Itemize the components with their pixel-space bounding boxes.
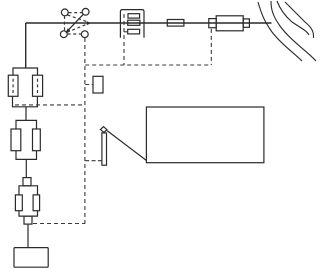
harness cable bundle — [258, 1, 316, 61]
dashed stub to terminal 3 — [124, 31, 128, 33]
dashed stub to lever SW1 — [85, 160, 102, 162]
filament housing right — [33, 75, 43, 96]
plug pin left — [209, 19, 216, 28]
dashed drop from terminal block — [123, 14, 125, 65]
wire link E1 to E2 — [25, 107, 27, 121]
switch blade solid diagonal with arrow — [68, 14, 84, 31]
terminal 1 — [128, 14, 140, 18]
lever arm — [102, 133, 107, 165]
fuse F1 — [167, 20, 184, 27]
dashed frame left side — [64, 16, 66, 31]
stalk switch SW1 lever — [100, 127, 146, 166]
connector body — [216, 16, 243, 31]
branch bracket bottom — [13, 96, 38, 107]
control unit U1 — [146, 107, 264, 163]
dashed link bottom to lamp unit E3 — [33, 223, 85, 225]
filament dashed core right — [37, 79, 39, 93]
bracket top — [16, 120, 37, 129]
contact circle bottom-left — [60, 31, 67, 38]
filament housing left — [8, 75, 18, 96]
contact circle top-left — [61, 9, 68, 16]
harness strand 3 — [277, 1, 309, 35]
harness strand 2 — [271, 1, 316, 61]
wire vertical feed from corner — [25, 23, 27, 68]
terminal 2 — [128, 20, 140, 25]
branch bracket top — [13, 68, 38, 75]
dashed control line vertical from switch — [84, 38, 86, 224]
travel arrowhead on wire — [87, 21, 91, 25]
dashed stub to relay K1 — [85, 84, 93, 86]
dashed travel line from top-left contact — [68, 15, 88, 22]
lamp unit E3 (with end caps) — [15, 178, 39, 225]
switch S1 (reversing switch, four contacts with motion arrows) — [60, 8, 90, 37]
lamp pair E1 (twin filaments) — [8, 68, 42, 107]
lever knob diamond — [100, 127, 107, 133]
harness strand 4 — [285, 2, 314, 38]
contact circle top-right — [82, 8, 89, 15]
cap top — [23, 178, 31, 186]
element left — [15, 195, 22, 211]
element right — [33, 129, 41, 151]
lamp pair E2 — [11, 120, 40, 159]
contact circle bottom-right — [81, 31, 88, 38]
wire link E2 to E3 — [25, 159, 27, 177]
dashed control line horizontal upper — [85, 64, 211, 66]
wire link E3 to M1 — [27, 224, 29, 248]
element right — [33, 195, 40, 211]
dashed frame bottom side — [68, 33, 81, 35]
cap bottom — [24, 216, 32, 224]
relay coil K1 (small block) — [93, 76, 103, 93]
harness strand 1 — [258, 2, 302, 61]
connector X1 (inline plug and socket) — [209, 16, 250, 31]
terminal block TB1 — [120, 10, 144, 38]
dashed frame top side — [69, 12, 82, 14]
actuating link to control unit — [107, 131, 146, 161]
wire main horizontal bus — [26, 22, 272, 24]
dashed travel line from bottom-left contact — [67, 24, 87, 32]
element left — [11, 129, 21, 151]
dashed drop from connector — [210, 29, 212, 65]
plug pin right — [243, 19, 249, 27]
dashed link lamp pair E1 — [15, 104, 85, 106]
bracket top — [19, 186, 38, 195]
terminal 3 — [128, 29, 140, 34]
bracket bottom — [19, 211, 38, 216]
bracket bottom — [16, 151, 37, 160]
filament dashed core left — [12, 79, 14, 93]
motor M1 (bottom unit) — [14, 248, 48, 268]
